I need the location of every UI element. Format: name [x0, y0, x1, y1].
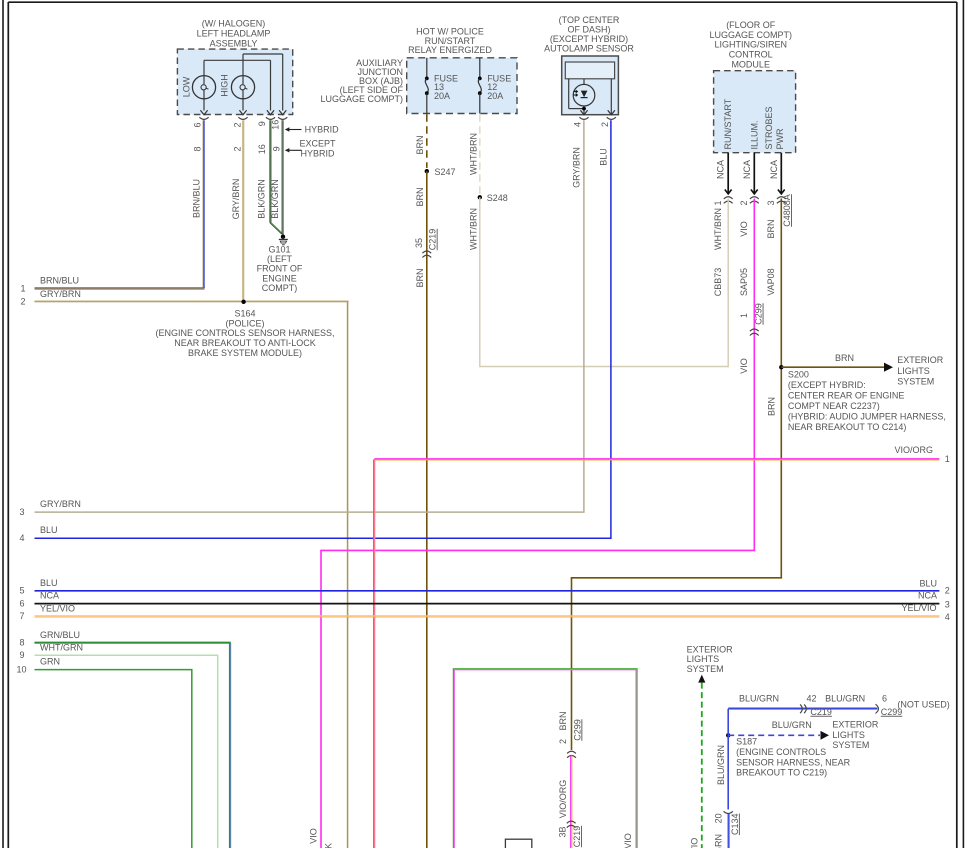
svg-text:3: 3 — [766, 200, 776, 205]
wire 7 YEL/VIO — [35, 615, 940, 617]
svg-text:GRY/BRN: GRY/BRN — [40, 499, 81, 509]
svg-text:BRN: BRN — [415, 135, 425, 154]
svg-text:6: 6 — [193, 122, 203, 127]
svg-text:S248: S248 — [487, 193, 508, 203]
svg-text:GRN: GRN — [40, 657, 60, 667]
wire 10 GRN — [35, 669, 193, 671]
svg-text:4: 4 — [945, 612, 950, 622]
svg-text:BRAKE SYSTEM MODULE): BRAKE SYSTEM MODULE) — [188, 348, 302, 358]
wire GRY/BRN headlamp pin 2 vertical — [242, 120, 244, 302]
svg-text:BLU: BLU — [40, 578, 58, 588]
splice S248 — [478, 195, 482, 199]
svg-text:BRN: BRN — [767, 397, 777, 416]
svg-text:2: 2 — [558, 739, 568, 744]
auxiliary junction box — [407, 58, 517, 114]
svg-text:16: 16 — [257, 144, 267, 154]
wire BRN from S247 to bottom — [426, 171, 428, 848]
svg-text:LIGHTING/SIREN: LIGHTING/SIREN — [714, 40, 787, 50]
svg-text:GRN/BLU: GRN/BLU — [40, 630, 80, 640]
wire 5 BLU — [35, 590, 940, 592]
svg-text:20: 20 — [714, 813, 724, 823]
svg-text:2: 2 — [20, 297, 25, 307]
svg-text:CONTROL: CONTROL — [729, 50, 773, 60]
wire 9 WHT/GRN — [35, 654, 219, 656]
svg-text:SAP05: SAP05 — [739, 268, 749, 296]
svg-text:C219: C219 — [572, 826, 582, 848]
svg-text:S164: S164 — [234, 309, 255, 319]
svg-text:STROBES: STROBES — [764, 106, 774, 149]
svg-text:C299: C299 — [754, 303, 764, 325]
svg-text:BRN/BLU: BRN/BLU — [191, 179, 201, 218]
autolamp pin arrows — [580, 110, 587, 115]
wire 3 GRY/BRN horizontal — [35, 511, 585, 513]
svg-text:BREAKOUT TO C219): BREAKOUT TO C219) — [736, 768, 827, 778]
wire VIO/ORG vertical to bottom — [373, 459, 375, 848]
svg-text:BRN: BRN — [835, 353, 854, 363]
svg-text:GRY/BRN: GRY/BRN — [231, 179, 241, 220]
svg-text:HYBRID: HYBRID — [305, 124, 340, 134]
svg-text:(ENGINE CONTROLS: (ENGINE CONTROLS — [736, 747, 826, 757]
photodiode — [573, 84, 595, 106]
svg-text:LUGGAGE COMPT): LUGGAGE COMPT) — [320, 94, 403, 104]
svg-text:6: 6 — [882, 693, 887, 703]
wire BRN from fuse 13 dashed feed — [426, 114, 428, 168]
svg-text:2: 2 — [233, 146, 243, 151]
svg-text:16: 16 — [270, 120, 280, 130]
svg-text:7: 7 — [19, 611, 24, 621]
autolamp internal wiring — [568, 79, 570, 109]
svg-text:RUN/START: RUN/START — [723, 98, 733, 149]
svg-text:C4808A: C4808A — [782, 194, 792, 227]
svg-text:(LEFT: (LEFT — [267, 254, 293, 264]
svg-text:EXTERIOR: EXTERIOR — [687, 645, 734, 655]
svg-text:SYSTEM: SYSTEM — [832, 740, 869, 750]
svg-text:MODULE: MODULE — [731, 60, 770, 70]
HYBRID callout arrow — [285, 127, 290, 131]
svg-text:3: 3 — [945, 600, 950, 610]
bulb LOW — [192, 76, 215, 99]
svg-text:BLU/GRN: BLU/GRN — [772, 720, 812, 730]
svg-text:BLU/GRN: BLU/GRN — [739, 694, 779, 704]
wire VIO/ORG horizontal to right edge circuit 1 — [374, 458, 939, 460]
svg-text:LEFT HEADLAMP: LEFT HEADLAMP — [197, 29, 271, 39]
svg-text:BLK/GRN: BLK/GRN — [270, 179, 280, 219]
wire 4 BLU horizontal — [35, 537, 612, 539]
fuse 12 20A — [479, 58, 481, 79]
svg-text:VIO: VIO — [623, 833, 633, 848]
svg-text:(FLOOR OF: (FLOOR OF — [726, 20, 776, 30]
svg-text:PWR: PWR — [775, 128, 785, 149]
svg-text:NCA: NCA — [742, 160, 752, 179]
svg-text:HOT W/ POLICE: HOT W/ POLICE — [416, 26, 484, 36]
dashed BLU/GRN to exterior lights system — [728, 734, 820, 736]
svg-text:NCA: NCA — [716, 160, 726, 179]
svg-text:42: 42 — [807, 693, 817, 703]
svg-text:BLK: BLK — [324, 843, 334, 848]
wire BRN/BLU headlamp pin 6 vertical — [202, 120, 204, 288]
fuse 13 20A — [426, 58, 428, 79]
svg-text:NCA: NCA — [918, 590, 937, 600]
svg-text:VIO: VIO — [309, 828, 319, 844]
wire BLU/GRN below C134 — [727, 814, 729, 848]
svg-text:(TOP CENTER: (TOP CENTER — [559, 15, 620, 25]
svg-text:VAP08: VAP08 — [766, 268, 776, 295]
svg-text:VIO: VIO — [739, 358, 749, 374]
wire WHT/BRN from fuse 12 dashed feed — [479, 114, 481, 194]
svg-text:VIO/ORG: VIO/ORG — [894, 445, 933, 455]
ground G101 — [281, 235, 285, 239]
wire 2 GRY/BRN vertical to bottom — [346, 302, 348, 848]
svg-text:CBB73: CBB73 — [713, 268, 723, 297]
green dashed arrow up — [698, 675, 705, 683]
splice S187 — [726, 733, 730, 737]
wire BLU autolamp pin 2 vertical — [610, 120, 612, 537]
svg-text:BLU: BLU — [599, 148, 609, 166]
svg-text:WHT/BRN: WHT/BRN — [468, 208, 478, 250]
svg-text:AUTOLAMP SENSOR: AUTOLAMP SENSOR — [544, 44, 634, 54]
svg-text:1: 1 — [20, 283, 25, 293]
svg-text:VIO: VIO — [689, 838, 699, 848]
connector C299 pin 1 on VIO — [750, 329, 759, 331]
svg-text:(W/ HALOGEN): (W/ HALOGEN) — [202, 19, 266, 29]
svg-text:WHT/GRN: WHT/GRN — [40, 642, 83, 652]
wire BRN module pin 3 — [780, 199, 782, 578]
svg-text:YEL/VIO: YEL/VIO — [901, 603, 936, 613]
wire GRY/BRN autolamp pin 4 vertical — [583, 120, 585, 511]
svg-text:NEAR BREAKOUT TO C214): NEAR BREAKOUT TO C214) — [788, 422, 907, 432]
svg-text:ASSEMBLY: ASSEMBLY — [210, 38, 258, 48]
svg-text:S187: S187 — [736, 737, 757, 747]
headlamp internal wiring — [204, 59, 271, 61]
svg-text:ILLUM.: ILLUM. — [750, 120, 760, 149]
svg-text:8: 8 — [19, 638, 24, 648]
svg-text:(HYBRID: AUDIO JUMPER HARNESS,: (HYBRID: AUDIO JUMPER HARNESS, — [788, 412, 946, 422]
svg-text:C134: C134 — [730, 814, 740, 836]
svg-text:VIO: VIO — [739, 221, 749, 237]
svg-text:VIO/ORG: VIO/ORG — [558, 780, 568, 819]
svg-text:1: 1 — [713, 200, 723, 205]
module box — [714, 71, 796, 153]
svg-text:(ENGINE CONTROLS SENSOR HARNES: (ENGINE CONTROLS SENSOR HARNESS, — [155, 328, 334, 338]
svg-text:LIGHTS: LIGHTS — [897, 366, 930, 376]
svg-text:FRONT OF: FRONT OF — [257, 264, 303, 274]
svg-text:HIGH: HIGH — [220, 74, 230, 97]
svg-text:2: 2 — [945, 585, 950, 595]
svg-text:COMPT NEAR C2237): COMPT NEAR C2237) — [788, 401, 880, 411]
svg-text:2: 2 — [739, 200, 749, 205]
svg-text:3B: 3B — [558, 826, 568, 837]
headlamp pin arrows and connector arcs — [200, 110, 207, 115]
connector C134 pin 20 — [724, 811, 733, 813]
svg-text:ENGINE: ENGINE — [262, 273, 297, 283]
wire BRN jog left and down — [571, 577, 782, 579]
svg-text:SYSTEM: SYSTEM — [897, 377, 934, 387]
wire GRN with VIO trace n-shape — [452, 669, 454, 848]
svg-text:9: 9 — [257, 121, 267, 126]
svg-text:NCA: NCA — [40, 591, 59, 601]
wire BLK/GRN headlamp pin 16 — [281, 120, 283, 234]
module pin stubs NCA — [727, 153, 729, 194]
wire 8 GRN/BLU — [35, 641, 231, 643]
svg-text:NEAR BREAKOUT TO ANTI-LOCK: NEAR BREAKOUT TO ANTI-LOCK — [174, 338, 316, 348]
bulb HIGH — [231, 76, 254, 99]
svg-text:LIGHTS: LIGHTS — [687, 654, 720, 664]
autolamp inner block — [565, 62, 614, 79]
wire VIO/ORG below C299 — [570, 756, 572, 848]
component box bottom center — [505, 839, 531, 848]
svg-text:9: 9 — [19, 650, 24, 660]
svg-text:RELAY ENERGIZED: RELAY ENERGIZED — [408, 45, 492, 55]
svg-text:6: 6 — [19, 598, 24, 608]
svg-text:4: 4 — [19, 533, 24, 543]
svg-text:1: 1 — [945, 454, 950, 464]
wire WHT/BRN from S248 down and right to module — [479, 197, 481, 366]
svg-text:GRY/BRN: GRY/BRN — [572, 147, 582, 188]
svg-text:EXTERIOR: EXTERIOR — [897, 355, 944, 365]
svg-text:C219: C219 — [428, 229, 438, 251]
svg-text:BLU/GRN: BLU/GRN — [825, 694, 865, 704]
svg-text:SYSTEM: SYSTEM — [687, 664, 724, 674]
wire 1 BRN/BLU horizontal — [35, 287, 205, 289]
svg-text:S247: S247 — [435, 167, 456, 177]
svg-text:10: 10 — [16, 664, 26, 674]
left headlamp assembly box — [177, 49, 292, 114]
svg-text:SENSOR HARNESS, NEAR: SENSOR HARNESS, NEAR — [736, 757, 851, 767]
svg-text:4: 4 — [573, 122, 583, 127]
svg-text:BLK/GRN: BLK/GRN — [257, 179, 267, 219]
svg-text:LUGGAGE COMPT): LUGGAGE COMPT) — [709, 30, 792, 40]
svg-text:3: 3 — [19, 507, 24, 517]
svg-text:HYBRID: HYBRID — [300, 149, 335, 159]
svg-text:GRY/BRN: GRY/BRN — [40, 289, 81, 299]
svg-text:C299: C299 — [572, 719, 582, 741]
svg-text:LOW: LOW — [182, 76, 192, 97]
svg-text:WHT/BRN: WHT/BRN — [713, 208, 723, 250]
svg-text:BLU: BLU — [919, 578, 937, 588]
svg-text:BRN: BRN — [766, 219, 776, 238]
svg-text:20A: 20A — [487, 91, 503, 101]
connector C219 pin 3B on VIO/ORG — [567, 821, 576, 823]
svg-text:EXCEPT: EXCEPT — [299, 138, 336, 148]
svg-text:BLU: BLU — [40, 525, 58, 535]
svg-text:20A: 20A — [434, 91, 450, 101]
splice S164 — [241, 300, 245, 304]
wire VIO module pin 2 — [753, 199, 755, 551]
svg-text:BLU/GRN: BLU/GRN — [714, 834, 724, 848]
wire BLK/GRN headlamp pin 9 — [269, 120, 271, 222]
svg-text:EXTERIOR: EXTERIOR — [832, 720, 879, 730]
svg-text:(EXCEPT HYBRID): (EXCEPT HYBRID) — [550, 34, 628, 44]
svg-text:COMPT): COMPT) — [262, 283, 298, 293]
EXCEPT HYBRID callout arrow — [285, 148, 290, 152]
svg-text:BLU/GRN: BLU/GRN — [716, 745, 726, 785]
connector C299 pin 2 on BRN/VIO-ORG — [567, 751, 576, 753]
svg-text:C219: C219 — [810, 707, 832, 717]
svg-text:35: 35 — [414, 238, 424, 248]
autolamp sensor box — [562, 56, 619, 115]
svg-text:BRN: BRN — [558, 711, 568, 730]
svg-text:CENTER REAR OF ENGINE: CENTER REAR OF ENGINE — [788, 391, 905, 401]
svg-text:2: 2 — [600, 122, 610, 127]
wire 6 NCA — [35, 603, 940, 605]
wire BLU/GRN horizontal with C219/C299 — [728, 707, 877, 709]
svg-text:8: 8 — [193, 146, 203, 151]
wire 2 GRY/BRN horizontal — [35, 300, 349, 302]
svg-text:(NOT USED): (NOT USED) — [897, 700, 949, 710]
svg-text:(EXCEPT HYBRID:: (EXCEPT HYBRID: — [788, 380, 866, 390]
autolamp junction dot — [582, 107, 586, 111]
svg-text:WHT/BRN: WHT/BRN — [468, 133, 478, 175]
svg-text:1: 1 — [739, 313, 749, 318]
svg-text:(POLICE): (POLICE) — [225, 318, 264, 328]
svg-text:LIGHTS: LIGHTS — [832, 730, 865, 740]
svg-text:BRN: BRN — [415, 187, 425, 206]
svg-text:NCA: NCA — [769, 160, 779, 179]
wire BLU/GRN vertical from corner through S187 — [727, 709, 729, 810]
svg-text:YEL/VIO: YEL/VIO — [40, 604, 75, 614]
wire BRN S200 to exterior lights system — [781, 366, 884, 368]
svg-text:BRN: BRN — [415, 268, 425, 287]
svg-text:2: 2 — [233, 122, 243, 127]
svg-text:OF DASH): OF DASH) — [567, 24, 610, 34]
connector C219 pin 35 on BRN — [422, 251, 431, 253]
svg-text:S200: S200 — [788, 370, 809, 380]
splice S200 — [779, 365, 783, 369]
svg-text:BRN/BLU: BRN/BLU — [40, 276, 79, 286]
wire VIO vertical to bottom — [320, 550, 322, 848]
wire VIO horizontal to left — [320, 549, 755, 551]
svg-text:5: 5 — [19, 586, 24, 596]
wire WHT/BRN module pin 1 — [727, 199, 729, 368]
splice S247 — [425, 169, 429, 173]
svg-text:9: 9 — [271, 146, 281, 151]
svg-text:G101: G101 — [268, 244, 290, 254]
